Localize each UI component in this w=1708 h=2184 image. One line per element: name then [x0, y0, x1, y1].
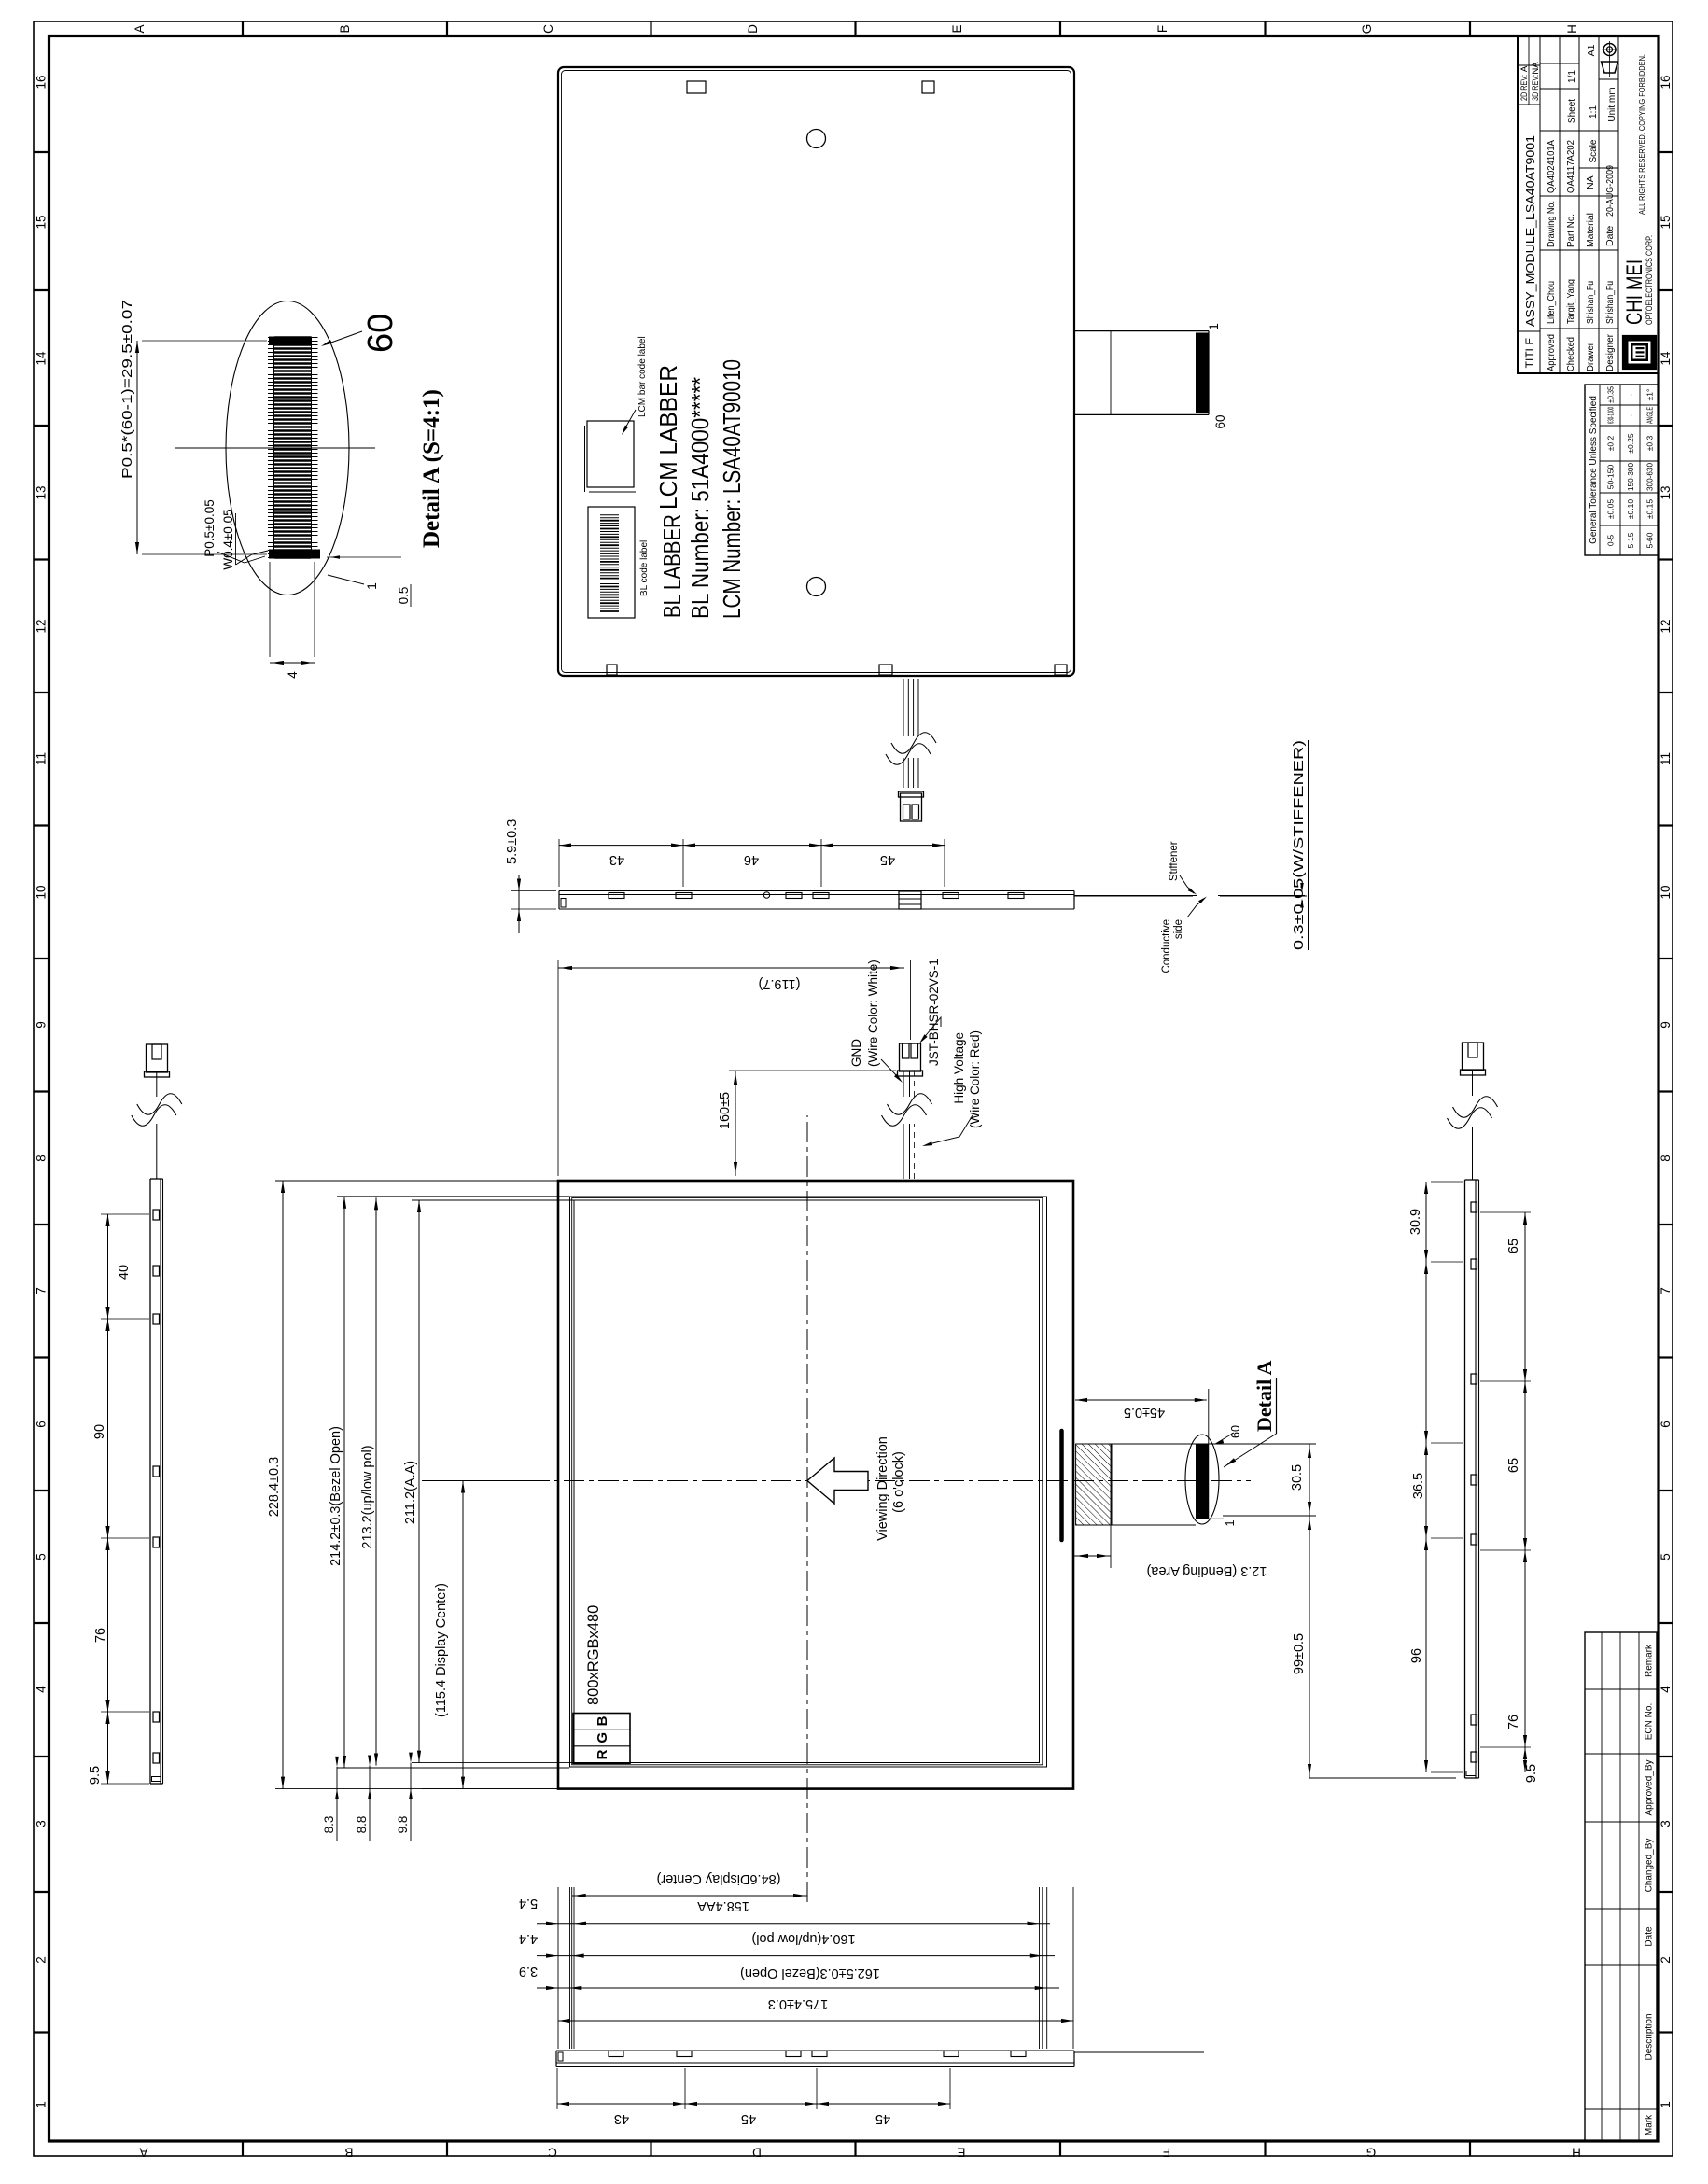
svg-text:BL Number: 51A4000*****: BL Number: 51A4000***** [686, 377, 714, 619]
FPC connector black bar [1196, 1444, 1209, 1519]
title block 2D/3D REV cells [1518, 104, 1540, 105]
right view hook dimension chain [559, 845, 945, 847]
rear view wire break [886, 744, 931, 765]
svg-text:High Voltage: High Voltage [952, 1032, 966, 1104]
svg-text:-: - [1626, 413, 1635, 416]
front view polarizer outline [572, 1198, 1043, 1765]
svg-text:630-1000: 630-1000 [1606, 407, 1616, 424]
svg-text:A: A [133, 24, 147, 33]
FPC centerline extension [1073, 1480, 1251, 1482]
svg-text:W0.4±0.05: W0.4±0.05 [221, 509, 235, 569]
svg-text:NA: NA [1531, 62, 1541, 75]
rear view connector [901, 793, 922, 821]
svg-text:1: 1 [1224, 1519, 1237, 1526]
title block row lines [1539, 36, 1541, 374]
svg-text:76: 76 [1506, 1715, 1521, 1729]
front view bezel opening [570, 1197, 1047, 1767]
svg-text:side: side [1173, 919, 1184, 939]
svg-text:11: 11 [1659, 752, 1673, 765]
svg-text:30.5: 30.5 [1290, 1464, 1305, 1491]
svg-text:300-630: 300-630 [1645, 463, 1655, 491]
svg-text:5.9±0.3: 5.9±0.3 [505, 819, 520, 864]
left view hook dimension chain [557, 2103, 950, 2105]
dim 119.7 wire position [558, 967, 904, 969]
svg-text:B: B [344, 2146, 353, 2160]
svg-text:15: 15 [1659, 215, 1673, 229]
svg-text:±0.05: ±0.05 [1606, 499, 1616, 519]
svg-text:±0.3: ±0.3 [1645, 435, 1655, 451]
svg-text:P0.5*(60-1)=29.5±0.07: P0.5*(60-1)=29.5±0.07 [120, 300, 135, 479]
left side view hooks [609, 2051, 623, 2057]
svg-text:D: D [746, 24, 760, 34]
lamp slot [1059, 1431, 1064, 1540]
svg-text:162.5±0.3(Bezel Open): 162.5±0.3(Bezel Open) [740, 1966, 880, 1981]
svg-text:5: 5 [35, 1553, 49, 1561]
svg-text:LCM bar code label: LCM bar code label [637, 336, 648, 417]
svg-text:Approved: Approved [1546, 334, 1557, 371]
svg-text:4: 4 [286, 671, 300, 679]
dim 213.2 polarizer width [375, 1197, 377, 1765]
front view wires [903, 1124, 904, 1179]
svg-text:B: B [595, 1715, 610, 1726]
svg-text:3: 3 [1659, 1820, 1673, 1827]
svg-text:4: 4 [35, 1686, 49, 1693]
svg-text:45±0.5: 45±0.5 [1124, 1405, 1165, 1420]
top side view hooks [153, 1753, 160, 1763]
svg-text:228.4±0.3: 228.4±0.3 [267, 1457, 282, 1517]
dim 175.4 overall height [558, 2020, 1073, 2022]
svg-text:Drawing No.: Drawing No. [1546, 201, 1557, 247]
dim 211.2 active area width [418, 1200, 420, 1763]
svg-text:30.9: 30.9 [1408, 1209, 1423, 1235]
dim 30.5 connector width [1309, 1444, 1310, 1516]
svg-text:D: D [752, 2146, 762, 2160]
svg-text:800xRGBx480: 800xRGBx480 [585, 1605, 602, 1705]
svg-text:Date: Date [1604, 226, 1616, 246]
svg-text:±0.2: ±0.2 [1606, 435, 1616, 451]
top side view connector [147, 1044, 168, 1072]
rear view FPC black bar [1196, 333, 1209, 414]
svg-text:A: A [139, 2146, 147, 2160]
svg-text:16: 16 [35, 75, 49, 89]
front view horizontal centerline [806, 1115, 808, 1902]
svg-text:±0.35: ±0.35 [1606, 386, 1616, 403]
detail A view ellipse [226, 301, 349, 595]
general tolerance table outline [1585, 385, 1659, 555]
svg-text:Viewing Direction: Viewing Direction [875, 1436, 890, 1541]
dim 160.4 polarizer height [537, 1955, 1055, 1957]
svg-text:9.5: 9.5 [88, 1766, 103, 1785]
CMO logo square [1623, 336, 1656, 369]
svg-text:Scale: Scale [1589, 139, 1599, 162]
svg-text:GND: GND [849, 1039, 863, 1067]
svg-text:9.5: 9.5 [1524, 1764, 1539, 1783]
svg-text:14: 14 [35, 351, 49, 366]
svg-text:160±5: 160±5 [718, 1092, 733, 1129]
svg-text:Stiffener: Stiffener [1169, 841, 1180, 881]
svg-text:160.4(up/low pol): 160.4(up/low pol) [751, 1931, 855, 1946]
svg-text:1: 1 [365, 582, 379, 590]
top side view wire [156, 1124, 158, 1179]
top side view strip [149, 1179, 151, 1784]
svg-text:(Wire Color: White): (Wire Color: White) [866, 959, 880, 1067]
svg-text:Shishan_Fu: Shishan_Fu [1604, 281, 1616, 324]
detail A pin1 mark [269, 550, 320, 559]
svg-text:H: H [1565, 24, 1579, 34]
svg-text:90: 90 [92, 1424, 107, 1439]
svg-text:Unit mm: Unit mm [1607, 87, 1617, 121]
LCM barcode label [584, 426, 586, 492]
svg-text:6: 6 [35, 1421, 49, 1428]
FPC tail sides [1112, 1524, 1196, 1526]
svg-text:96: 96 [1409, 1648, 1424, 1663]
svg-text:36.5: 36.5 [1411, 1473, 1426, 1499]
dim 8.3 bezel open left gap [336, 1767, 338, 1841]
dim 12.3 bending area [1074, 1555, 1111, 1557]
svg-text:211.2(A.A): 211.2(A.A) [403, 1461, 418, 1524]
detail A ellipse [1185, 1435, 1219, 1524]
title block outline [1518, 36, 1659, 374]
svg-text:3: 3 [35, 1820, 49, 1827]
svg-text:Mark: Mark [1645, 2114, 1655, 2135]
svg-text:1: 1 [1659, 2101, 1673, 2108]
right side view strip [559, 908, 1074, 910]
svg-text:F: F [1155, 25, 1169, 33]
dim 45 bending length [1075, 1399, 1207, 1401]
svg-text:G: G [1360, 24, 1374, 35]
bottom view inner dimension chain [1425, 1182, 1427, 1772]
svg-text:45: 45 [880, 852, 895, 867]
svg-text:10: 10 [35, 885, 49, 899]
dim 158.4 active area height [537, 1923, 1050, 1925]
grid row ticks right edge [242, 21, 244, 36]
svg-text:ASSY_MODULE_LSA40AT9001: ASSY_MODULE_LSA40AT9001 [1523, 135, 1537, 327]
svg-text:8: 8 [35, 1155, 49, 1162]
rear view wires [903, 758, 904, 788]
rear view outline [558, 67, 1074, 676]
svg-text:5.4: 5.4 [519, 1896, 538, 1911]
front view active area [574, 1200, 1040, 1763]
svg-text:5-60: 5-60 [1645, 532, 1655, 548]
svg-text:16: 16 [1659, 75, 1673, 89]
svg-text:99±0.5: 99±0.5 [1292, 1633, 1307, 1674]
svg-text:ECN No.: ECN No. [1645, 1703, 1655, 1740]
svg-text:Lifen_Chou: Lifen_Chou [1546, 281, 1557, 324]
bottom side view wire [1472, 1127, 1474, 1180]
svg-text:5-15: 5-15 [1626, 532, 1635, 548]
svg-text:46: 46 [744, 852, 759, 867]
svg-text:B: B [338, 24, 352, 33]
svg-text:43: 43 [609, 852, 624, 867]
svg-text:65: 65 [1506, 1239, 1521, 1253]
svg-text:Conductive: Conductive [1161, 919, 1172, 973]
svg-text:1: 1 [1207, 323, 1221, 330]
svg-text:NA: NA [1585, 175, 1596, 189]
svg-text:A: A [1519, 65, 1530, 72]
dim 8.8 polarizer left gap [369, 1766, 371, 1841]
svg-text:14: 14 [1659, 351, 1673, 366]
dim 160 wire length [735, 1071, 736, 1176]
svg-text:BL LABBER: BL LABBER [658, 514, 686, 618]
svg-text:2: 2 [35, 1956, 49, 1964]
svg-text:Checked: Checked [1565, 337, 1576, 371]
svg-text:40: 40 [117, 1265, 132, 1280]
svg-text:QA4024101A: QA4024101A [1546, 140, 1557, 193]
svg-text:60: 60 [361, 314, 400, 353]
rear view right edge hooks [687, 81, 706, 93]
front view wire break [882, 1105, 927, 1127]
detail A pin comb [268, 557, 318, 559]
svg-text:Designer: Designer [1604, 334, 1616, 371]
svg-text:CHI MEI: CHI MEI [1622, 259, 1647, 325]
svg-text:(Wire Color: Red): (Wire Color: Red) [968, 1030, 982, 1128]
svg-text:Material: Material [1585, 213, 1596, 247]
svg-text:Remark: Remark [1645, 1644, 1655, 1677]
svg-text:45: 45 [875, 2111, 890, 2126]
detail A centerline [175, 447, 375, 449]
top side view wire break [132, 1105, 176, 1127]
svg-text:±0.15: ±0.15 [1645, 499, 1655, 519]
svg-text:13: 13 [1659, 485, 1673, 499]
svg-text:150-300: 150-300 [1626, 463, 1635, 491]
svg-text:1: 1 [35, 2101, 49, 2108]
bottom side view hooks [1471, 1752, 1477, 1762]
bottom side view wire break [1448, 1108, 1492, 1129]
front view outer bezel [558, 1181, 1073, 1789]
svg-text:9: 9 [1659, 1021, 1673, 1029]
svg-text:Drawer: Drawer [1585, 343, 1596, 371]
svg-text:158.4AA: 158.4AA [697, 1898, 749, 1913]
svg-text:Description: Description [1645, 2013, 1655, 2060]
svg-text:Approved_By: Approved_By [1645, 1759, 1655, 1815]
svg-text:0.3±0.05(W/STIFFENER): 0.3±0.05(W/STIFFENER) [1291, 740, 1307, 950]
svg-text:12.3 (Bending Area): 12.3 (Bending Area) [1147, 1563, 1267, 1578]
svg-text:9: 9 [35, 1021, 49, 1029]
revision table outline [1585, 1632, 1657, 2141]
svg-text:BL code label: BL code label [639, 540, 650, 596]
svg-text:2: 2 [1659, 1956, 1673, 1964]
svg-text:5: 5 [1659, 1553, 1673, 1561]
svg-text:OPTOELECTRONICS CORP.: OPTOELECTRONICS CORP. [1645, 235, 1655, 325]
general tolerance table grid [1599, 385, 1601, 555]
viewing direction arrow [807, 1458, 868, 1504]
detail A pin60 mark [269, 337, 312, 345]
svg-text:H: H [1572, 2146, 1581, 2160]
front view vertical centerline [460, 1480, 1069, 1482]
svg-text:13: 13 [35, 485, 49, 499]
right side view wire holder [899, 891, 921, 909]
svg-text:JST-BHSR-02VS-1: JST-BHSR-02VS-1 [927, 959, 941, 1066]
dim 99 connector position [1309, 1516, 1310, 1778]
svg-text:50-150: 50-150 [1606, 464, 1616, 489]
svg-text:43: 43 [614, 2111, 629, 2126]
svg-text:±0.10: ±0.10 [1626, 499, 1635, 519]
svg-text:4: 4 [1659, 1686, 1673, 1693]
svg-text:A1: A1 [1586, 44, 1597, 56]
svg-text:12: 12 [35, 619, 49, 633]
dim 162.5 bezel open height [537, 1987, 1059, 1989]
bottom side view connector [1463, 1043, 1484, 1071]
dim 84.6 display center [572, 1895, 807, 1897]
dim 29.5 pin span [136, 341, 138, 554]
svg-text:E: E [957, 2146, 965, 2160]
svg-text:15: 15 [35, 215, 49, 229]
revision table grid [1601, 1632, 1603, 2141]
svg-text:2D REV:: 2D REV: [1519, 75, 1530, 101]
svg-text:8.8: 8.8 [355, 1816, 369, 1834]
svg-text:C: C [548, 2146, 557, 2160]
svg-text:65: 65 [1506, 1458, 1521, 1473]
svg-text:76: 76 [93, 1628, 108, 1643]
rear view left edge hooks [607, 665, 617, 675]
svg-text:LCM LABBER: LCM LABBER [654, 365, 682, 510]
svg-text:(6 o'clock): (6 o'clock) [891, 1451, 906, 1513]
bottom side view strip [1464, 1180, 1466, 1778]
rear view screw hole right [807, 130, 826, 148]
right side view FPC stiffener line [1074, 895, 1197, 897]
BL barcode label [588, 507, 635, 618]
bottom view outer dimension chain [1524, 1212, 1526, 1772]
left side view FPC edge line [1074, 2051, 1204, 2053]
grid column ticks top edge [34, 2031, 49, 2033]
dim 9.8 active area left gap [410, 1763, 412, 1841]
svg-text:60: 60 [1213, 414, 1227, 428]
third angle projection symbol [1602, 62, 1618, 73]
svg-text:4.4: 4.4 [519, 1931, 538, 1946]
svg-text:TITLE: TITLE [1523, 338, 1536, 369]
svg-text:ALL RIGHTS RESERVED, COPYING F: ALL RIGHTS RESERVED, COPYING FORBIDDEN. [1637, 54, 1646, 215]
svg-text:10: 10 [1659, 885, 1673, 899]
svg-text:Detail A: Detail A [1253, 1361, 1276, 1432]
svg-text:0-5: 0-5 [1606, 535, 1616, 547]
svg-text:(115.4 Display Center): (115.4 Display Center) [434, 1583, 449, 1717]
svg-text:Sheet: Sheet [1567, 99, 1577, 123]
top view hook dimension chain [107, 1214, 109, 1784]
svg-text:Changed_By: Changed_By [1645, 1839, 1655, 1893]
dim 5.9 thickness [518, 875, 520, 933]
detail A 4 width dim [270, 662, 315, 664]
svg-text:G: G [595, 1732, 610, 1743]
svg-text:-: - [1626, 393, 1635, 396]
svg-text:Date: Date [1645, 1926, 1655, 1947]
title block column lines [1518, 330, 1540, 332]
grid row ticks left edge [242, 2141, 244, 2156]
front view connector [900, 1043, 921, 1071]
svg-text:±1°: ±1° [1645, 389, 1655, 401]
svg-text:1:1: 1:1 [1589, 105, 1599, 119]
svg-text:R: R [595, 1749, 610, 1759]
svg-text:LCM Number: LSA40AT90010: LCM Number: LSA40AT90010 [718, 359, 746, 619]
svg-text:(84.6Display Center): (84.6Display Center) [657, 1871, 781, 1886]
svg-text:P0.5±0.05: P0.5±0.05 [203, 499, 217, 556]
svg-text:3.9: 3.9 [519, 1964, 538, 1979]
dim 228.4 overall width [282, 1181, 284, 1789]
grid column ticks bottom edge [1659, 2031, 1673, 2033]
rear view FPC tail [1074, 413, 1209, 415]
svg-text:3D REV:: 3D REV: [1531, 75, 1541, 101]
svg-text:8.3: 8.3 [322, 1816, 336, 1834]
left side view strip [556, 2066, 1074, 2068]
dim 115.4 display center [462, 1481, 464, 1789]
svg-text:1/1: 1/1 [1567, 70, 1577, 83]
svg-text:214.2±0.3(Bezel Open): 214.2±0.3(Bezel Open) [329, 1426, 343, 1566]
svg-text:General Tolerance Unless Speci: General Tolerance Unless Specified [1589, 396, 1599, 544]
dim 214.2 bezel open width [343, 1197, 345, 1768]
svg-text:175.4±0.3: 175.4±0.3 [768, 1996, 828, 2011]
svg-text:7: 7 [1659, 1287, 1673, 1295]
svg-text:0.5: 0.5 [397, 587, 411, 605]
svg-text:QA4117A202: QA4117A202 [1565, 140, 1576, 193]
svg-text:8: 8 [1659, 1155, 1673, 1162]
svg-text:213.2(up/low pol): 213.2(up/low pol) [360, 1445, 375, 1548]
svg-text:Detail A (S=4:1): Detail A (S=4:1) [419, 389, 444, 548]
RGB pixel table [573, 1714, 630, 1764]
svg-text:C: C [541, 24, 555, 34]
svg-text:Targit_Yang: Targit_Yang [1565, 279, 1576, 324]
svg-text:G: G [1366, 2146, 1377, 2160]
svg-text:20-AUG-2009: 20-AUG-2009 [1604, 165, 1616, 217]
svg-text:45: 45 [741, 2111, 756, 2126]
right side view hooks [609, 893, 624, 899]
svg-text:6: 6 [1659, 1421, 1673, 1428]
svg-text:9.8: 9.8 [396, 1816, 410, 1834]
svg-text:±0.25: ±0.25 [1626, 433, 1635, 453]
svg-text:Shishan_Fu: Shishan_Fu [1585, 281, 1596, 324]
svg-text:7: 7 [35, 1287, 49, 1295]
svg-text:Part No.: Part No. [1565, 214, 1576, 247]
svg-text:60: 60 [1229, 1425, 1242, 1438]
right side view lamp hole [763, 892, 769, 898]
rear view screw hole left [807, 578, 826, 596]
svg-text:ANGLE: ANGLE [1645, 407, 1655, 424]
svg-text:(119.7): (119.7) [759, 976, 801, 991]
bottom side view FPC edge line [1074, 895, 1193, 897]
svg-text:12: 12 [1659, 619, 1673, 633]
svg-text:F: F [1163, 2146, 1170, 2160]
svg-text:E: E [950, 24, 964, 33]
svg-text:11: 11 [35, 752, 49, 765]
